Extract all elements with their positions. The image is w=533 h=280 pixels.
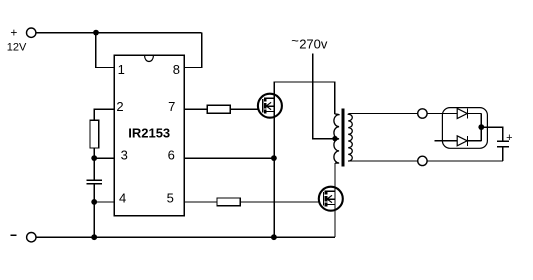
transformer T1 core xyxy=(342,109,345,167)
transformer T1 secondary winding xyxy=(348,114,352,162)
diode D2 xyxy=(457,136,467,146)
terminal minus input xyxy=(10,233,36,242)
wire Q1 source down to bottom rail xyxy=(273,112,275,238)
IC U1 IR2153 body xyxy=(114,55,184,215)
svg-text:6: 6 xyxy=(168,147,175,162)
node primary center tap junction xyxy=(332,136,337,141)
svg-text:IR2153: IR2153 xyxy=(128,126,170,141)
U1 notch xyxy=(145,56,154,62)
wire D1 cathode xyxy=(467,113,481,115)
node pin3 junction xyxy=(91,155,97,161)
wire secondary bottom to terminal xyxy=(350,160,418,162)
wire R1 to node pin3 xyxy=(93,148,95,158)
wire secondary top to terminal xyxy=(350,113,418,115)
svg-text:4: 4 xyxy=(119,190,126,205)
wire D2 cathode xyxy=(467,140,481,142)
terminal secondary bottom xyxy=(418,156,427,165)
transistor Q1 upper MOSFET xyxy=(258,94,282,118)
transistor Q2 lower MOSFET xyxy=(319,187,343,211)
rectifier D1 D2 package outline xyxy=(442,108,487,149)
wire node to capacitor C1 xyxy=(93,158,95,180)
wire top rail 12V xyxy=(36,32,202,34)
wire Q1 drain to transformer primary top xyxy=(274,82,335,114)
wire terminal to rectifier xyxy=(427,113,442,115)
wire node pin4 to bottom rail xyxy=(93,202,95,237)
wire bottom rail xyxy=(36,236,335,238)
capacitor C1 xyxy=(87,180,102,184)
svg-text:5: 5 xyxy=(167,190,174,205)
svg-text:+: + xyxy=(10,25,17,39)
node junction top rail xyxy=(93,30,99,36)
wire rectifier top input xyxy=(442,113,457,115)
node bottom rail right junction xyxy=(271,234,277,240)
svg-text:8: 8 xyxy=(173,62,180,77)
node pin6 junction xyxy=(271,155,277,161)
wire pin6 to Q1 source column xyxy=(184,157,274,159)
svg-text:1: 1 xyxy=(118,62,125,77)
wire pin2 to resistor R1 xyxy=(94,109,114,120)
wire C2 to bottom rail xyxy=(502,147,504,161)
node rectifier output junction xyxy=(478,124,484,130)
svg-text:12V: 12V xyxy=(7,42,27,54)
wire R3 to Q2 gate xyxy=(240,201,323,203)
capacitor C2 xyxy=(497,141,509,146)
svg-text:2: 2 xyxy=(116,99,123,114)
svg-text:+: + xyxy=(506,132,512,144)
svg-text:3: 3 xyxy=(121,147,128,162)
wire C1 to node pin4 xyxy=(93,184,95,202)
terminal secondary top xyxy=(418,109,427,118)
wire pin5 to resistor R3 xyxy=(184,201,217,203)
resistor R2 xyxy=(207,105,230,113)
node bottom rail left junction xyxy=(91,234,97,240)
wire 270v to primary center tap xyxy=(313,54,336,139)
node pin4 junction xyxy=(91,199,97,205)
wire bottom to capacitor C2 xyxy=(427,160,503,162)
wire pin7 to resistor R2 xyxy=(184,108,207,110)
diode D1 xyxy=(457,109,467,119)
wire pin4 xyxy=(94,201,114,203)
resistor R3 xyxy=(217,198,240,206)
wire junction to pin1 xyxy=(96,33,115,68)
wire pin3 xyxy=(94,157,114,159)
svg-text:270v: 270v xyxy=(299,37,328,52)
resistor R1 xyxy=(90,120,99,148)
transformer T1 primary winding xyxy=(334,114,339,163)
wire top rail to pin8 xyxy=(184,33,201,68)
svg-text:7: 7 xyxy=(168,99,175,114)
wire Q2 source to bottom rail xyxy=(334,205,336,238)
terminal +12V input xyxy=(7,25,36,53)
wire cathode bus xyxy=(480,114,482,141)
wire rectifier output to C2 xyxy=(481,127,503,141)
wire R2 to Q1 gate xyxy=(230,108,262,110)
svg-text:~: ~ xyxy=(291,33,299,48)
wire Q2 drain to transformer primary bottom xyxy=(334,163,336,191)
wire rectifier bottom stub xyxy=(434,140,457,142)
